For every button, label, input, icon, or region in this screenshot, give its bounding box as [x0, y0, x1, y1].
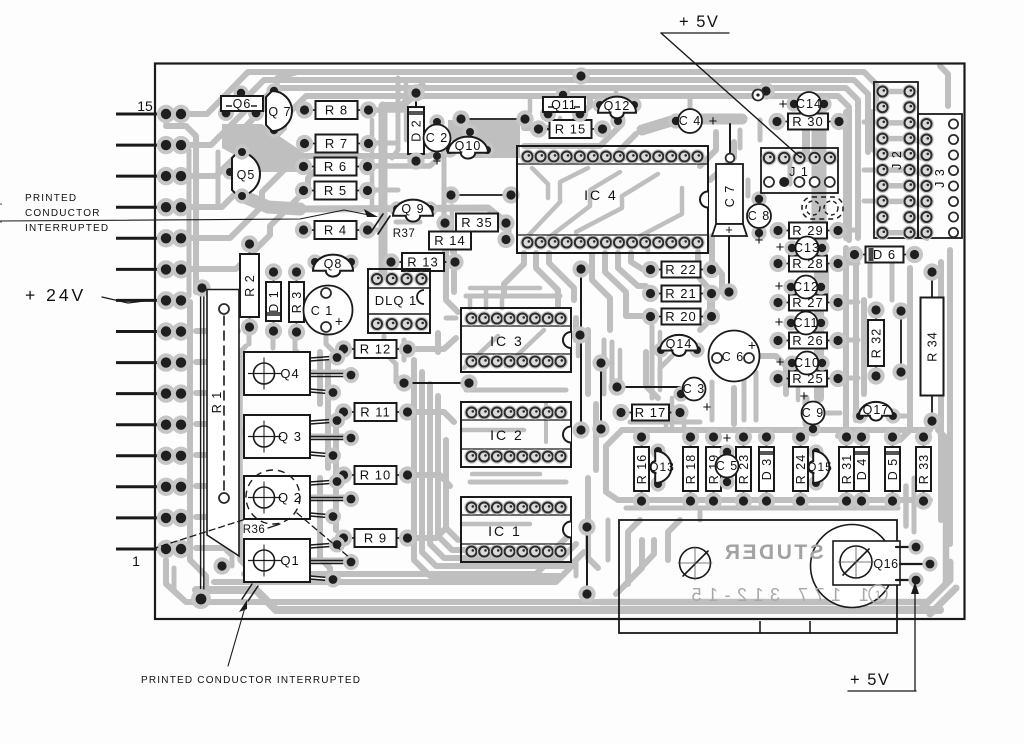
trace [646, 352, 658, 398]
svg-text:R 13: R 13 [407, 255, 438, 270]
capacitor C10 [784, 355, 799, 370]
optocoupler DLQ1 [368, 269, 430, 333]
capacitor C2 [429, 114, 444, 129]
transistor Q14 [653, 342, 668, 357]
trace [414, 360, 560, 576]
svg-text:15: 15 [137, 98, 153, 114]
svg-text:IC 4: IC 4 [584, 187, 618, 203]
trace [224, 548, 232, 566]
bottom bracket [619, 520, 897, 633]
svg-text:D 3: D 3 [760, 458, 774, 480]
page hole [0, 204, 2, 222]
svg-text:R 32: R 32 [870, 328, 884, 358]
via [572, 67, 589, 84]
trace [648, 96, 849, 240]
IC U2 [461, 402, 571, 467]
diode D1 [273, 272, 275, 282]
resistor R6 [304, 166, 315, 168]
trace [312, 558, 348, 563]
resistor R17 [621, 412, 632, 414]
svg-text:PRINTED CONDUCTOR INTERRUPTE: PRINTED CONDUCTOR INTERRUPTED [141, 675, 361, 686]
trace [837, 376, 858, 381]
svg-text:R 11: R 11 [360, 405, 391, 420]
trace [664, 414, 669, 430]
trace [930, 588, 956, 614]
transistor Q7 [266, 83, 281, 98]
svg-text:+: + [800, 388, 809, 405]
trace [872, 112, 882, 158]
trace [658, 332, 663, 390]
resistor R36 (dashed outline) [246, 470, 300, 524]
trace [882, 89, 910, 95]
transistor Q11 [540, 106, 556, 122]
transistor Q17 [852, 408, 867, 423]
trace [788, 160, 793, 184]
svg-text:+: + [776, 239, 785, 256]
transistor Q10 [462, 124, 477, 139]
svg-text:R 14: R 14 [434, 233, 465, 248]
svg-text:1 177 312-15: 1 177 312-15 [685, 585, 869, 605]
capacitor C3 [673, 386, 688, 401]
svg-text:Q12: Q12 [604, 99, 631, 113]
resistor R24 [800, 437, 802, 447]
trace [196, 328, 238, 334]
svg-text:Q16: Q16 [873, 557, 898, 571]
resistor R22 [651, 269, 662, 271]
svg-text:R 22: R 22 [665, 262, 696, 277]
trace [196, 545, 224, 551]
trace [438, 396, 568, 550]
trace [837, 228, 858, 233]
trace [532, 168, 548, 198]
svg-text:R 4: R 4 [324, 223, 347, 238]
trace [712, 236, 722, 292]
trace [668, 520, 680, 560]
svg-text:STUDER: STUDER [722, 541, 823, 564]
transistor Q8 [307, 254, 322, 269]
trace [903, 486, 909, 526]
capacitor C13 [784, 240, 799, 255]
trace [524, 134, 636, 160]
trace blob [222, 124, 306, 172]
jumper outline (dashed) [802, 197, 843, 219]
capacitor C11 [783, 315, 798, 330]
svg-text:R 18: R 18 [684, 454, 698, 484]
trace [366, 146, 452, 166]
resistor R7 [305, 143, 316, 145]
svg-text:R 12: R 12 [360, 342, 391, 357]
wire [404, 382, 469, 384]
transistor Q15 [808, 444, 823, 459]
trace [843, 112, 849, 238]
trace [271, 333, 276, 348]
svg-text:J 2: J 2 [890, 150, 904, 170]
connector J2 [874, 82, 918, 238]
trace [618, 350, 623, 382]
trace [295, 333, 306, 360]
board outline [155, 64, 965, 620]
resistor R26 [778, 340, 789, 342]
trace [884, 252, 900, 257]
trace [230, 346, 246, 362]
resistor R16 [641, 437, 643, 447]
screw [680, 548, 711, 579]
diode D6 [855, 254, 866, 256]
trace [628, 520, 640, 584]
trace [588, 478, 598, 568]
svg-text:IC 2: IC 2 [490, 427, 524, 443]
trace [864, 168, 875, 173]
svg-text:R 9: R 9 [364, 531, 387, 546]
svg-text:R 35: R 35 [461, 215, 492, 230]
capacitor C12 [783, 279, 798, 294]
trace [466, 388, 566, 393]
svg-text:R 7: R 7 [325, 136, 348, 151]
svg-text:R 23: R 23 [737, 454, 751, 484]
svg-text:Q8: Q8 [324, 257, 343, 271]
svg-text:R 34: R 34 [926, 331, 940, 361]
trace [244, 558, 552, 574]
resistor R11 [344, 411, 355, 413]
svg-text:R 24: R 24 [794, 454, 808, 484]
svg-text:R 5: R 5 [324, 183, 347, 198]
trace [466, 294, 560, 299]
trace [593, 404, 599, 470]
svg-text:R37: R37 [393, 228, 416, 240]
svg-text:R 15: R 15 [555, 122, 586, 137]
svg-text:C 9: C 9 [802, 406, 824, 420]
svg-text:+: + [755, 232, 764, 249]
resistor R10 [344, 474, 355, 476]
svg-text:C10: C10 [794, 356, 820, 370]
trace [824, 411, 840, 416]
svg-text:INTERRUPTED: INTERRUPTED [25, 223, 109, 234]
trace [392, 78, 398, 158]
resistor R32 [875, 310, 877, 320]
svg-text:C 6: C 6 [722, 350, 744, 364]
svg-text:R 3: R 3 [290, 291, 304, 313]
svg-text:Q 9: Q 9 [401, 202, 424, 216]
resistor R5 [304, 190, 315, 192]
resistor R9 [344, 537, 355, 539]
trace [464, 336, 498, 368]
wire [600, 363, 602, 429]
svg-text:J 3: J 3 [933, 168, 947, 188]
transistor Q12 [592, 97, 607, 112]
trace [402, 340, 407, 360]
trace [758, 120, 763, 140]
trace [187, 150, 192, 296]
trace [247, 332, 252, 344]
svg-text:1: 1 [132, 553, 140, 569]
svg-text:D 5: D 5 [886, 458, 900, 480]
trace [406, 338, 456, 349]
svg-text:+: + [709, 113, 718, 130]
resistor R25 [778, 378, 789, 380]
trace [181, 88, 656, 176]
resistor R29 [778, 230, 789, 232]
trace [317, 352, 323, 404]
trace [558, 118, 563, 128]
break mark R37 [371, 214, 383, 232]
svg-text:J 1: J 1 [789, 165, 809, 179]
svg-text:R 21: R 21 [665, 286, 696, 301]
svg-text:R 1: R 1 [210, 391, 224, 413]
trace [837, 261, 858, 266]
resistor R13 [391, 261, 402, 263]
trace [468, 296, 473, 308]
transistor Q3 [244, 415, 310, 458]
trace [760, 356, 786, 394]
svg-text:+: + [775, 278, 784, 295]
trace [216, 152, 221, 206]
diode D4 [861, 437, 863, 447]
trace [430, 384, 576, 558]
leader to R4 break [0, 210, 369, 221]
svg-text:+: + [748, 337, 756, 353]
resistor R2 [249, 244, 251, 254]
connector J3 [918, 114, 962, 238]
trace [181, 80, 664, 145]
trace [600, 560, 946, 602]
trace [181, 72, 670, 114]
trace [698, 252, 710, 310]
trace [370, 120, 375, 210]
svg-text:DLQ 1: DLQ 1 [375, 293, 418, 308]
trace [606, 520, 611, 560]
trace [312, 495, 348, 500]
wire [729, 124, 731, 158]
wire [415, 88, 417, 166]
trace [504, 253, 524, 296]
edge connector pins 1-15 [116, 113, 166, 116]
svg-text:Q 3: Q 3 [278, 429, 302, 444]
transistor Q2 [244, 476, 310, 519]
svg-text:IC 1: IC 1 [488, 523, 522, 539]
svg-text:R36: R36 [243, 524, 266, 536]
svg-text:R 31: R 31 [840, 454, 854, 484]
svg-text:R 20: R 20 [665, 309, 696, 324]
trace [446, 316, 456, 321]
trace [624, 540, 654, 586]
wire [461, 118, 525, 120]
resistor R14 [429, 232, 471, 250]
trace [796, 388, 801, 400]
trace [576, 336, 581, 356]
trace [435, 333, 441, 352]
trace [231, 300, 237, 340]
diode D2 [408, 107, 424, 154]
via [213, 557, 230, 574]
svg-text:+: + [725, 222, 733, 237]
svg-text:Q13: Q13 [649, 460, 675, 474]
trace [536, 253, 558, 306]
trace [442, 150, 447, 250]
IC U3 [461, 308, 571, 372]
trace [300, 208, 508, 242]
svg-text:C14: C14 [796, 97, 822, 111]
trace [576, 174, 658, 232]
trace [592, 255, 610, 330]
trace [700, 132, 716, 166]
svg-text:+ 5V: + 5V [679, 13, 719, 31]
trace [379, 106, 388, 276]
trace [196, 424, 244, 434]
resistor R3 [296, 272, 298, 282]
trace [610, 342, 615, 390]
trace [823, 264, 829, 300]
svg-text:D 1: D 1 [267, 290, 281, 312]
trace [383, 86, 422, 106]
resistor R20 [651, 316, 662, 318]
trace [618, 253, 646, 286]
trace [196, 590, 940, 610]
resistor R31 [846, 437, 848, 447]
svg-text:Q15: Q15 [807, 460, 833, 474]
trace [938, 430, 946, 520]
svg-text:Q10: Q10 [455, 139, 482, 153]
trace [462, 428, 524, 433]
resistor R12 [344, 348, 355, 350]
trace [698, 512, 703, 520]
trace [368, 141, 398, 146]
trace [614, 92, 619, 100]
svg-text:Q6: Q6 [233, 97, 252, 111]
svg-text:C 2: C 2 [426, 131, 448, 145]
trace [947, 250, 953, 544]
svg-text:Q17: Q17 [863, 403, 890, 417]
svg-text:Q4: Q4 [280, 366, 299, 381]
trace [664, 80, 868, 152]
svg-text:C11: C11 [793, 316, 818, 330]
transistor Q4 [244, 352, 310, 395]
svg-text:R 33: R 33 [917, 454, 931, 484]
trace [803, 398, 810, 424]
svg-text:+: + [779, 96, 788, 113]
trace [861, 300, 867, 394]
capacitor C7 [716, 164, 743, 224]
connector J1 [761, 148, 838, 193]
trace [754, 372, 759, 420]
svg-text:+: + [335, 313, 343, 329]
wire [900, 311, 902, 372]
trace [196, 359, 230, 365]
trace [190, 302, 206, 594]
trace [196, 483, 226, 489]
trace [646, 236, 651, 252]
resistor R28 [778, 263, 789, 265]
trace [738, 130, 743, 148]
svg-text:C 8: C 8 [748, 209, 770, 223]
svg-text:R 6: R 6 [324, 159, 347, 174]
trace [626, 506, 898, 511]
wire [580, 269, 582, 430]
trace [549, 253, 574, 300]
trace [181, 164, 322, 269]
trace [181, 96, 648, 207]
resistor R30 [777, 121, 788, 123]
trace [630, 420, 700, 425]
svg-text:+: + [776, 354, 785, 371]
trace [812, 104, 827, 265]
IC U4 [517, 146, 708, 253]
trace [943, 520, 950, 560]
trace [602, 340, 607, 394]
trace [484, 288, 489, 308]
trace [524, 96, 590, 128]
transistor Q5 [222, 164, 237, 179]
svg-text:+ 24V: + 24V [25, 285, 86, 305]
trace [585, 330, 591, 394]
svg-text:Q 7: Q 7 [268, 105, 291, 119]
trace [605, 253, 646, 316]
trace [196, 452, 230, 458]
trace [446, 232, 458, 312]
resistor R23 [743, 437, 745, 447]
trace [422, 372, 584, 566]
trace [900, 268, 910, 440]
trace [325, 362, 331, 468]
transistor Q16 [811, 525, 894, 608]
trace [366, 228, 378, 233]
trace [406, 475, 450, 486]
leader to Q1 break [228, 604, 246, 666]
capacitor C6 [709, 331, 760, 382]
trace [174, 568, 186, 602]
svg-text:Q 2: Q 2 [278, 490, 302, 505]
mounting hole [753, 90, 764, 101]
trace [616, 540, 642, 594]
resistor R1 [200, 292, 202, 592]
svg-text:C 1: C 1 [311, 304, 333, 318]
trace [622, 427, 930, 433]
trace [462, 522, 530, 527]
trace blob [247, 198, 300, 209]
trace [838, 248, 846, 436]
trace [406, 412, 454, 422]
svg-text:D 2: D 2 [410, 119, 424, 141]
wire [617, 386, 680, 388]
trace [226, 393, 236, 470]
trace [277, 72, 298, 94]
trace [660, 356, 672, 380]
svg-text:Q14: Q14 [666, 337, 693, 351]
trace [196, 514, 228, 520]
resistor R18 [690, 437, 692, 447]
resistor R21 [651, 293, 662, 295]
capacitor C8 [751, 191, 766, 206]
trace [731, 388, 737, 424]
trace [656, 88, 858, 238]
diode D5 [892, 437, 894, 447]
trace [326, 334, 338, 356]
trace [682, 420, 687, 430]
trace [320, 478, 330, 580]
trace [470, 480, 566, 485]
capacitor C5 [719, 444, 734, 459]
svg-text:C 5: C 5 [716, 459, 738, 473]
transistor Q1 [244, 539, 310, 582]
svg-text:R 16: R 16 [635, 454, 649, 484]
trace [802, 120, 810, 158]
svg-text:D 6: D 6 [873, 247, 896, 262]
svg-text:R 26: R 26 [792, 333, 823, 348]
svg-text:R 2: R 2 [243, 274, 257, 296]
resistor R15 [539, 128, 550, 130]
trace [404, 84, 409, 140]
transistor Q9 [389, 201, 404, 216]
resistor R35 [436, 214, 453, 231]
